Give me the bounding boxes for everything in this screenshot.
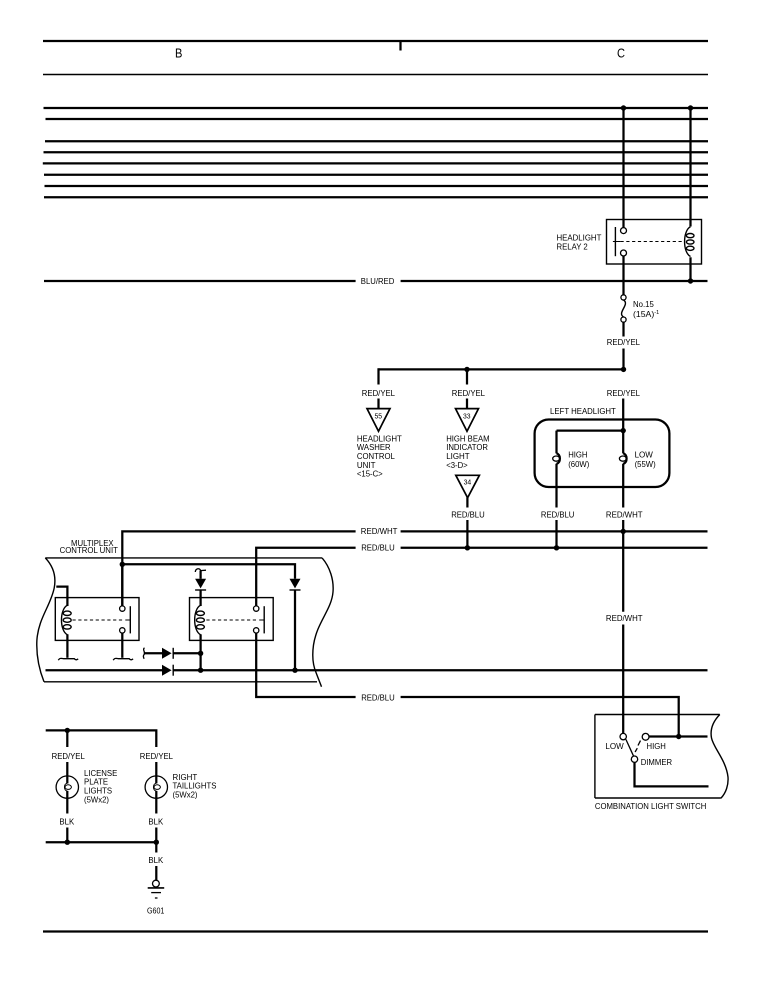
wire BLU/RED line left: [44, 280, 356, 282]
switch lever: [626, 739, 634, 756]
relay K1 dashed link: [73, 619, 125, 621]
wire K1 pin bottom lead: [121, 633, 123, 658]
wire diode D3 to K2 coil: [173, 652, 200, 654]
svg-text:34: 34: [464, 478, 472, 487]
wire second border line: [43, 74, 708, 76]
junction dot license feed: [65, 728, 70, 733]
wire DIMMER lead: [635, 763, 709, 787]
diode D4: [162, 665, 173, 676]
junction dot coil to BLU/RED: [688, 278, 693, 283]
junction dot HIGH contact: [676, 734, 681, 739]
svg-text:BLK: BLK: [59, 816, 74, 826]
connector triangle 55: [367, 409, 390, 432]
wire bus line 3: [45, 140, 708, 142]
svg-text:RED/WHT: RED/WHT: [361, 526, 398, 536]
svg-text:COMBINATION LIGHT SWITCH: COMBINATION LIGHT SWITCH: [595, 801, 706, 811]
junction dot bus to relay coil: [688, 105, 693, 110]
wire bus line 1: [44, 107, 709, 109]
wire K1 coil top lead hook: [56, 587, 67, 606]
wire t34 label to RED/BLU line: [466, 520, 468, 548]
wire taillight bulb down: [155, 798, 157, 813]
wire bus line 5: [43, 162, 708, 164]
svg-text:<3-D>: <3-D>: [446, 460, 468, 470]
junction dot license ground: [65, 840, 70, 845]
svg-text:55: 55: [375, 411, 383, 420]
wire taillight feed line: [46, 730, 157, 747]
relay K1 switch tick: [125, 619, 130, 621]
wire internal bus right segment: [173, 669, 707, 671]
wire BLK to ground symbol: [155, 866, 157, 880]
inductor relay coil: [685, 227, 694, 257]
svg-text:HIGH: HIGH: [647, 741, 666, 751]
lamp LOW (55W) bulb: [619, 453, 626, 464]
relay K2 switch bar: [263, 606, 265, 633]
svg-text:RED/WHT: RED/WHT: [606, 613, 643, 623]
svg-text:(5Wx2): (5Wx2): [173, 790, 198, 800]
relay switch contact bar: [614, 227, 616, 256]
svg-text:No.15: No.15: [633, 299, 654, 309]
wire high bulb to RED/BLU line: [555, 520, 557, 548]
wire K1 coil bottom lead: [66, 634, 68, 658]
svg-text:BLU/RED: BLU/RED: [361, 276, 395, 286]
switch lever alternate dashed position: [635, 748, 637, 752]
wire BLU/RED line right: [401, 280, 708, 282]
wire branch1 to triangle 55: [377, 399, 379, 410]
lamp RIGHT TAILLIGHTS: [145, 776, 167, 798]
relay HEADLIGHT RELAY 2 box: [607, 220, 702, 265]
pin circle HIGH contact: [642, 733, 649, 740]
diode D1: [195, 579, 206, 590]
relay K2 dashed link: [206, 619, 258, 621]
wire branch2 to triangle 33: [466, 399, 468, 410]
svg-text:LOW: LOW: [605, 741, 624, 751]
svg-text:(55W): (55W): [635, 459, 656, 469]
wire low bulb to RED/WHT line: [622, 520, 624, 531]
lamp HIGH (60W) bulb: [553, 453, 560, 464]
wire main label to oval: [622, 399, 624, 431]
svg-text:RED/BLU: RED/BLU: [361, 692, 395, 702]
wire RED/WHT line right: [401, 530, 708, 532]
multiplex unit U1 top edge: [45, 557, 322, 559]
wire diode D1 to relay coil K2: [199, 590, 201, 606]
svg-text:33: 33: [463, 411, 471, 420]
wire RED/BLU line left: [256, 548, 355, 606]
wire taillight drop to bulb: [155, 762, 157, 778]
relay K2 box: [190, 598, 274, 641]
pin circle relay bottom: [621, 250, 627, 256]
svg-text:B: B: [175, 46, 182, 60]
wire bus line 7: [45, 185, 709, 187]
pin circle DIMMER contact: [631, 756, 637, 762]
wire diode D2 to bus: [294, 590, 296, 670]
wire ground bus: [46, 841, 157, 843]
svg-text:RED/WHT: RED/WHT: [606, 509, 643, 519]
pin circle K2 bottom: [254, 628, 259, 633]
pigtail stub diode D1: [195, 569, 206, 572]
diode D3: [162, 648, 173, 659]
svg-text:DIMMER: DIMMER: [641, 757, 672, 767]
wire LOW bulb down: [622, 464, 624, 508]
junction dot D2 bus: [292, 668, 297, 673]
wire branch1 corner down: [379, 369, 380, 384]
svg-text:RED/YEL: RED/YEL: [52, 751, 85, 761]
svg-text:<15-C>: <15-C>: [357, 469, 383, 479]
relay K2 switch tick: [259, 619, 264, 621]
svg-text:RED/YEL: RED/YEL: [140, 751, 173, 761]
wire fuse to label: [622, 322, 624, 337]
pin circle K1 bottom: [120, 628, 125, 633]
wire branch2 down: [466, 369, 468, 384]
wire branch line: [379, 368, 624, 370]
wire HIGH bulb down: [555, 464, 557, 508]
svg-text:LEFT HEADLIGHT: LEFT HEADLIGHT: [550, 406, 616, 416]
svg-text:RED/BLU: RED/BLU: [361, 542, 395, 552]
inductor K1 coil: [61, 605, 71, 634]
junction dot low bulb to RED/WHT: [621, 529, 626, 534]
wire triangle 34 down: [466, 497, 468, 507]
wire K2 coil bottom lead: [199, 634, 201, 670]
wire license drop to bulb: [66, 762, 68, 778]
wire bus line 4: [44, 151, 709, 153]
wire license bulb down: [66, 798, 68, 813]
wire bus line 6: [44, 174, 708, 176]
junction dot branch main: [621, 367, 626, 372]
wire diode D3 line: [144, 652, 162, 654]
wire license to ground bus: [66, 828, 68, 843]
relay K1 switch bar: [129, 606, 131, 633]
wire internal bus left segment: [46, 669, 163, 671]
connector triangle 33: [456, 409, 479, 432]
combination light switch torn right edge: [711, 715, 728, 799]
wire main RED/WHT vertical upper: [622, 531, 624, 611]
inductor K2 coil: [195, 605, 205, 634]
pin circle relay top: [621, 228, 627, 234]
wire relay pin2 down to fuse: [622, 256, 624, 295]
wire K2 pin bottom to RED/BLU bottom: [256, 633, 355, 697]
svg-text:G601: G601: [147, 905, 165, 915]
svg-text:CONTROL UNIT: CONTROL UNIT: [60, 545, 119, 555]
svg-text:RED/YEL: RED/YEL: [452, 388, 485, 398]
svg-text:RED/YEL: RED/YEL: [607, 388, 640, 398]
wire RED/BLU bottom right: [401, 697, 679, 734]
svg-text:HIGH: HIGH: [568, 449, 587, 459]
junction dot RED/WHT into unit: [120, 562, 125, 567]
relay actuation dashed link: [621, 241, 683, 243]
wire bus line 8: [44, 196, 708, 198]
ground G601: [148, 880, 165, 898]
terminal squiggle K1 coil: [58, 658, 78, 660]
junction dot bus to relay switch: [621, 105, 626, 110]
wire bottom border line: [43, 930, 708, 932]
svg-text:RED/BLU: RED/BLU: [541, 509, 575, 519]
combination light switch box top edge: [595, 714, 720, 716]
multiplex unit torn left edge: [37, 558, 55, 682]
wire to HIGH bulb: [555, 431, 557, 454]
junction dot inside oval: [621, 428, 626, 433]
terminal squiggle K1 pin: [113, 658, 133, 660]
wire to LOW bulb: [622, 431, 624, 454]
svg-text:(60W): (60W): [568, 459, 589, 469]
junction dot branch 2: [464, 367, 469, 372]
svg-text:LOW: LOW: [635, 449, 654, 459]
pin circle K1 top: [120, 606, 125, 611]
junction dot high bulb to RED/BLU: [554, 545, 559, 550]
svg-text:RED/BLU: RED/BLU: [451, 509, 485, 519]
junction dot D3 K2 coil: [198, 651, 203, 656]
multiplex unit bottom edge: [44, 681, 317, 683]
wire bus line 2: [46, 118, 709, 120]
component LEFT HEADLIGHT oval: [535, 420, 670, 488]
junction dot taillight ground: [154, 840, 159, 845]
wire internal feed to diode D2: [122, 564, 295, 579]
pin circle K2 top: [254, 606, 259, 611]
wire taillight to ground bus: [155, 828, 157, 843]
terminal squiggle diode line start: [143, 648, 144, 659]
svg-text:C: C: [617, 46, 625, 60]
svg-text:(5Wx2): (5Wx2): [84, 794, 109, 804]
wire license drop upper: [66, 730, 68, 747]
wire RED/BLU line right: [401, 547, 708, 549]
lamp LICENSE PLATE LIGHTS: [56, 776, 78, 798]
wire relay coil down to BLU/RED: [689, 257, 691, 281]
node section tick: [399, 41, 401, 51]
junction dot K2 coil bus: [198, 668, 203, 673]
wire vertical bus to relay coil top: [689, 108, 691, 227]
svg-text:RELAY 2: RELAY 2: [557, 241, 588, 251]
wire top border line: [43, 40, 708, 42]
wire RED/WHT line left: [122, 531, 355, 606]
combination light switch box bottom edge: [595, 797, 721, 799]
relay switch tick: [613, 241, 621, 243]
wire main RED/WHT vertical lower: [622, 625, 624, 734]
svg-text:BLK: BLK: [148, 816, 163, 826]
wire HIGH contact line: [649, 735, 708, 737]
wire stub to diode D1: [199, 571, 201, 579]
pin circle LOW contact: [620, 733, 626, 739]
wire label to branch node: [622, 349, 624, 370]
junction dot t34 to RED/BLU: [465, 545, 470, 550]
wire RED/WHT to K1 pin: [121, 564, 123, 606]
combination light switch box left edge: [594, 715, 596, 799]
diode D2: [290, 579, 301, 590]
wire vertical bus to relay pin 1: [622, 108, 624, 228]
multiplex unit torn right edge: [313, 558, 333, 687]
relay K1 box: [55, 598, 139, 641]
svg-text:RED/YEL: RED/YEL: [362, 388, 395, 398]
fuse No.15: [621, 295, 626, 322]
svg-text:BLK: BLK: [148, 855, 163, 865]
wire oval internal horizontal: [557, 429, 624, 431]
svg-text:RED/YEL: RED/YEL: [607, 337, 640, 347]
wire ground bus down: [155, 842, 157, 852]
connector triangle 34: [456, 475, 480, 498]
